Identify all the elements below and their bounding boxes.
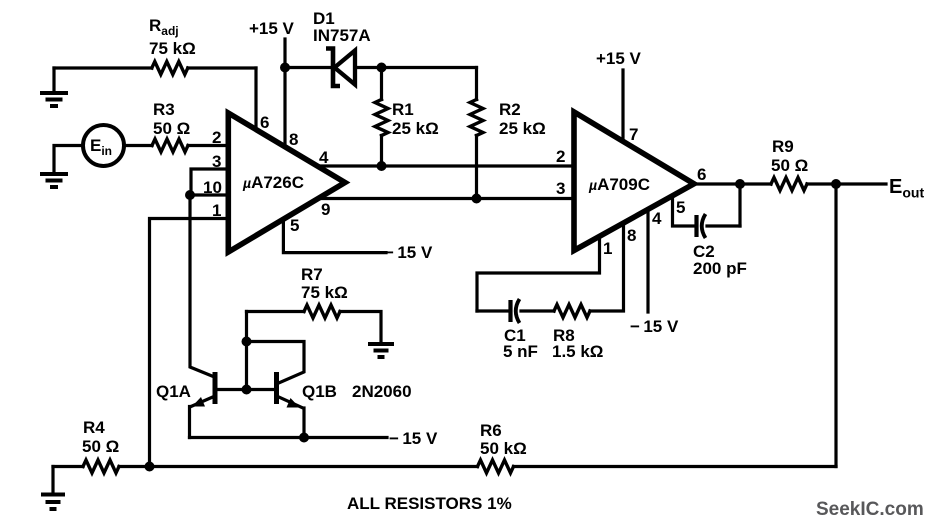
wire R3 to pin 2 [188, 144, 228, 147]
node Q1B collector tie [242, 337, 252, 347]
label Radj value 75 kOhm [149, 39, 196, 58]
svg-text:µA709C: µA709C [588, 175, 650, 194]
resistor R8 [554, 305, 590, 318]
pin label 7 [629, 125, 638, 144]
resistor R1 [375, 68, 388, 167]
wire pin1 stub and down [150, 219, 229, 467]
resistor R9 [771, 178, 807, 191]
label Q1A [156, 382, 191, 401]
svg-text:2N2060: 2N2060 [352, 382, 412, 401]
wire pins3-10 down to Q1A collector [190, 195, 215, 377]
svg-text:50 kΩ: 50 kΩ [480, 439, 527, 458]
label R6 [480, 421, 502, 440]
label R7 [301, 265, 323, 284]
node Eout / feedback [831, 179, 841, 189]
label C1 value [503, 342, 538, 361]
label R6 value [480, 439, 527, 458]
svg-text:75 kΩ: 75 kΩ [301, 283, 348, 302]
wire base rail [216, 388, 277, 391]
svg-text:5 nF: 5 nF [503, 342, 538, 361]
wire pin3 stub [191, 169, 228, 195]
label R1 value [392, 119, 439, 138]
resistor R6 [478, 460, 514, 473]
svg-text:µA726C: µA726C [242, 173, 304, 192]
wire U2 output to node [694, 182, 740, 185]
wire U2 pin1 loop to C1 [477, 237, 600, 312]
svg-text:50 Ω: 50 Ω [153, 119, 190, 138]
wire rail2 pin9 to U2 pin3 [319, 197, 575, 200]
note ALL RESISTORS 1% [347, 494, 512, 513]
wire bottom rail left segment [53, 465, 83, 468]
svg-text:6: 6 [697, 165, 706, 184]
label R4 value [82, 437, 119, 456]
wire pin6 vertical [254, 68, 257, 130]
svg-text:1: 1 [603, 239, 612, 258]
resistor R2 [470, 68, 483, 199]
label R2 [499, 100, 521, 119]
wire +15V drop to node [283, 39, 286, 68]
svg-text:R3: R3 [153, 100, 175, 119]
wire Q1B collector loop [247, 342, 305, 384]
wire emitter rail to -15V [190, 436, 388, 439]
wire R8 to pin8 riser [590, 223, 624, 311]
node at D1 anode side [280, 63, 290, 73]
wire Ein to R3 [124, 144, 152, 147]
svg-text:− 15 V: − 15 V [384, 243, 433, 262]
svg-text:SeekIC.com: SeekIC.com [816, 499, 924, 520]
svg-text:50 Ω: 50 Ω [82, 437, 119, 456]
svg-text:R2: R2 [499, 100, 521, 119]
wire zener to R1 node [356, 66, 382, 69]
label +15 V right [596, 49, 642, 68]
node R2 to rail2 [472, 194, 482, 204]
ground G3 [368, 344, 394, 357]
wire node to Eout terminal [836, 182, 886, 185]
label R9 [772, 137, 794, 156]
svg-text:200 pF: 200 pF [693, 259, 747, 278]
node zener / R1 / R2 [377, 63, 387, 73]
label R9 value [771, 156, 808, 175]
svg-text:50 Ω: 50 Ω [771, 156, 808, 175]
label C2 [693, 242, 715, 261]
node output / C2 [735, 179, 745, 189]
resistor R3 [152, 139, 188, 152]
pin label 9 [321, 200, 330, 219]
wire U2 pin4 to -15V [646, 210, 649, 313]
label R3 [153, 100, 175, 119]
svg-text:+15 V: +15 V [596, 49, 642, 68]
svg-text:Q1A: Q1A [156, 382, 191, 401]
label R2 value [499, 119, 546, 138]
svg-text:4: 4 [319, 148, 329, 167]
wire feedback vertical to bottom rail [834, 184, 837, 467]
wire node to R2 top corner [382, 66, 477, 69]
svg-text:25 kΩ: 25 kΩ [499, 119, 546, 138]
label -15 V for emitters [389, 429, 438, 448]
label Radj [149, 16, 179, 38]
svg-text:8: 8 [627, 226, 636, 245]
pin label 8 [289, 130, 298, 149]
pin label 5 [290, 216, 299, 235]
label +15 V left [249, 19, 295, 38]
pin label 3 [212, 152, 221, 171]
wire rail1 pin4 to U2 pin2 [317, 164, 574, 167]
node bases tie [242, 385, 252, 395]
pin label 6 of U2 [697, 165, 706, 184]
node pin3-pin10 tie [185, 190, 195, 200]
svg-text:ALL RESISTORS 1%: ALL RESISTORS 1% [347, 494, 512, 513]
svg-text:2: 2 [212, 128, 221, 147]
diode D1 zener [326, 49, 355, 87]
ground G2 [40, 174, 68, 187]
svg-text:+15 V: +15 V [249, 19, 295, 38]
wire R7 left leg down to bases [245, 312, 248, 390]
wire R9 to Eout node [807, 182, 836, 185]
pin label 4 of U2 [652, 209, 662, 228]
op-amp U2 uA709C [574, 112, 694, 251]
wire bottom rail right segment [514, 465, 837, 468]
capacitor C2 [697, 214, 741, 238]
label -15 V for U1 pin5 [384, 243, 433, 262]
pin label 2 of U2 [556, 147, 565, 166]
pin label 10 [203, 178, 222, 197]
svg-text:2: 2 [556, 147, 565, 166]
source Ein circle [83, 125, 124, 166]
svg-text:IN757A: IN757A [313, 26, 371, 45]
resistor Radj [152, 62, 188, 75]
op-amp U1 uA726C [228, 113, 345, 252]
pin label 6 [260, 113, 269, 132]
label Eout [889, 176, 924, 201]
resistor R7 [247, 305, 382, 343]
svg-text:R4: R4 [83, 418, 105, 437]
svg-text:9: 9 [321, 200, 330, 219]
label IN757A [313, 26, 371, 45]
svg-text:5: 5 [676, 198, 685, 217]
label D1 [313, 9, 335, 28]
transistor Q1B [277, 372, 305, 438]
label R8 [553, 326, 575, 345]
pin label 1 of U2 [603, 239, 612, 258]
pin label 4 [319, 148, 329, 167]
ground G1 [40, 93, 68, 106]
label uA726C [242, 173, 304, 192]
svg-text:25 kΩ: 25 kΩ [392, 119, 439, 138]
wire top rail from ground to Radj [54, 66, 152, 69]
label R3 value [153, 119, 190, 138]
svg-text:R6: R6 [480, 421, 502, 440]
pin label 3 of U2 [556, 179, 565, 198]
svg-text:R1: R1 [392, 100, 414, 119]
svg-text:R9: R9 [772, 137, 794, 156]
svg-text:75 kΩ: 75 kΩ [149, 39, 196, 58]
label Ein [90, 136, 112, 158]
label C1 [504, 326, 526, 345]
ground G4 [41, 495, 65, 510]
resistor R4 [83, 460, 119, 473]
label C2 value [693, 259, 747, 278]
wire Radj to pin6 corner [188, 66, 256, 69]
svg-text:5: 5 [290, 216, 299, 235]
wire Ein to ground [54, 146, 83, 173]
node R1 to rail1 [377, 161, 387, 171]
wire C2 riser to output [738, 184, 741, 226]
label R1 [392, 100, 414, 119]
node Q1B emitter [299, 433, 309, 443]
svg-text:1.5 kΩ: 1.5 kΩ [552, 342, 603, 361]
label R8 value [552, 342, 603, 361]
transistor Q1A [190, 372, 216, 438]
wire pin8 vertical [283, 68, 286, 147]
wire ground drop left top [52, 68, 55, 92]
wire node to R9 [740, 182, 771, 185]
node pin1 line to rail [145, 462, 155, 472]
svg-text:− 15 V: − 15 V [630, 317, 679, 336]
wire U2 pin5 stub to C2 [673, 196, 694, 226]
capacitor C1 [477, 299, 554, 323]
label -15 V for U2 pin4 [630, 317, 679, 336]
svg-text:− 15 V: − 15 V [389, 429, 438, 448]
svg-text:4: 4 [652, 209, 662, 228]
wire node to zener bar [285, 66, 331, 69]
label 2N2060 [352, 382, 412, 401]
pin label 8 of U2 [627, 226, 636, 245]
wire pin10 stub [189, 193, 228, 196]
label Q1B [302, 382, 337, 401]
wire ground drop bottom left [51, 467, 54, 494]
wire bottom rail middle [119, 465, 478, 468]
pin label 1 [212, 201, 221, 220]
label R7 value [301, 283, 348, 302]
svg-text:Q1B: Q1B [302, 382, 337, 401]
label uA709C [588, 175, 650, 194]
pin label 2 [212, 128, 221, 147]
svg-text:6: 6 [260, 113, 269, 132]
wire +15V drop to U2 pin7 [621, 70, 624, 142]
pin label 5 of U2 [676, 198, 685, 217]
wire pin5 of U1 to -15V [283, 219, 386, 253]
svg-text:R7: R7 [301, 265, 323, 284]
watermark SeekIC.com [816, 499, 924, 520]
svg-text:3: 3 [556, 179, 565, 198]
svg-text:8: 8 [289, 130, 298, 149]
label R4 [83, 418, 105, 437]
svg-text:7: 7 [629, 125, 638, 144]
